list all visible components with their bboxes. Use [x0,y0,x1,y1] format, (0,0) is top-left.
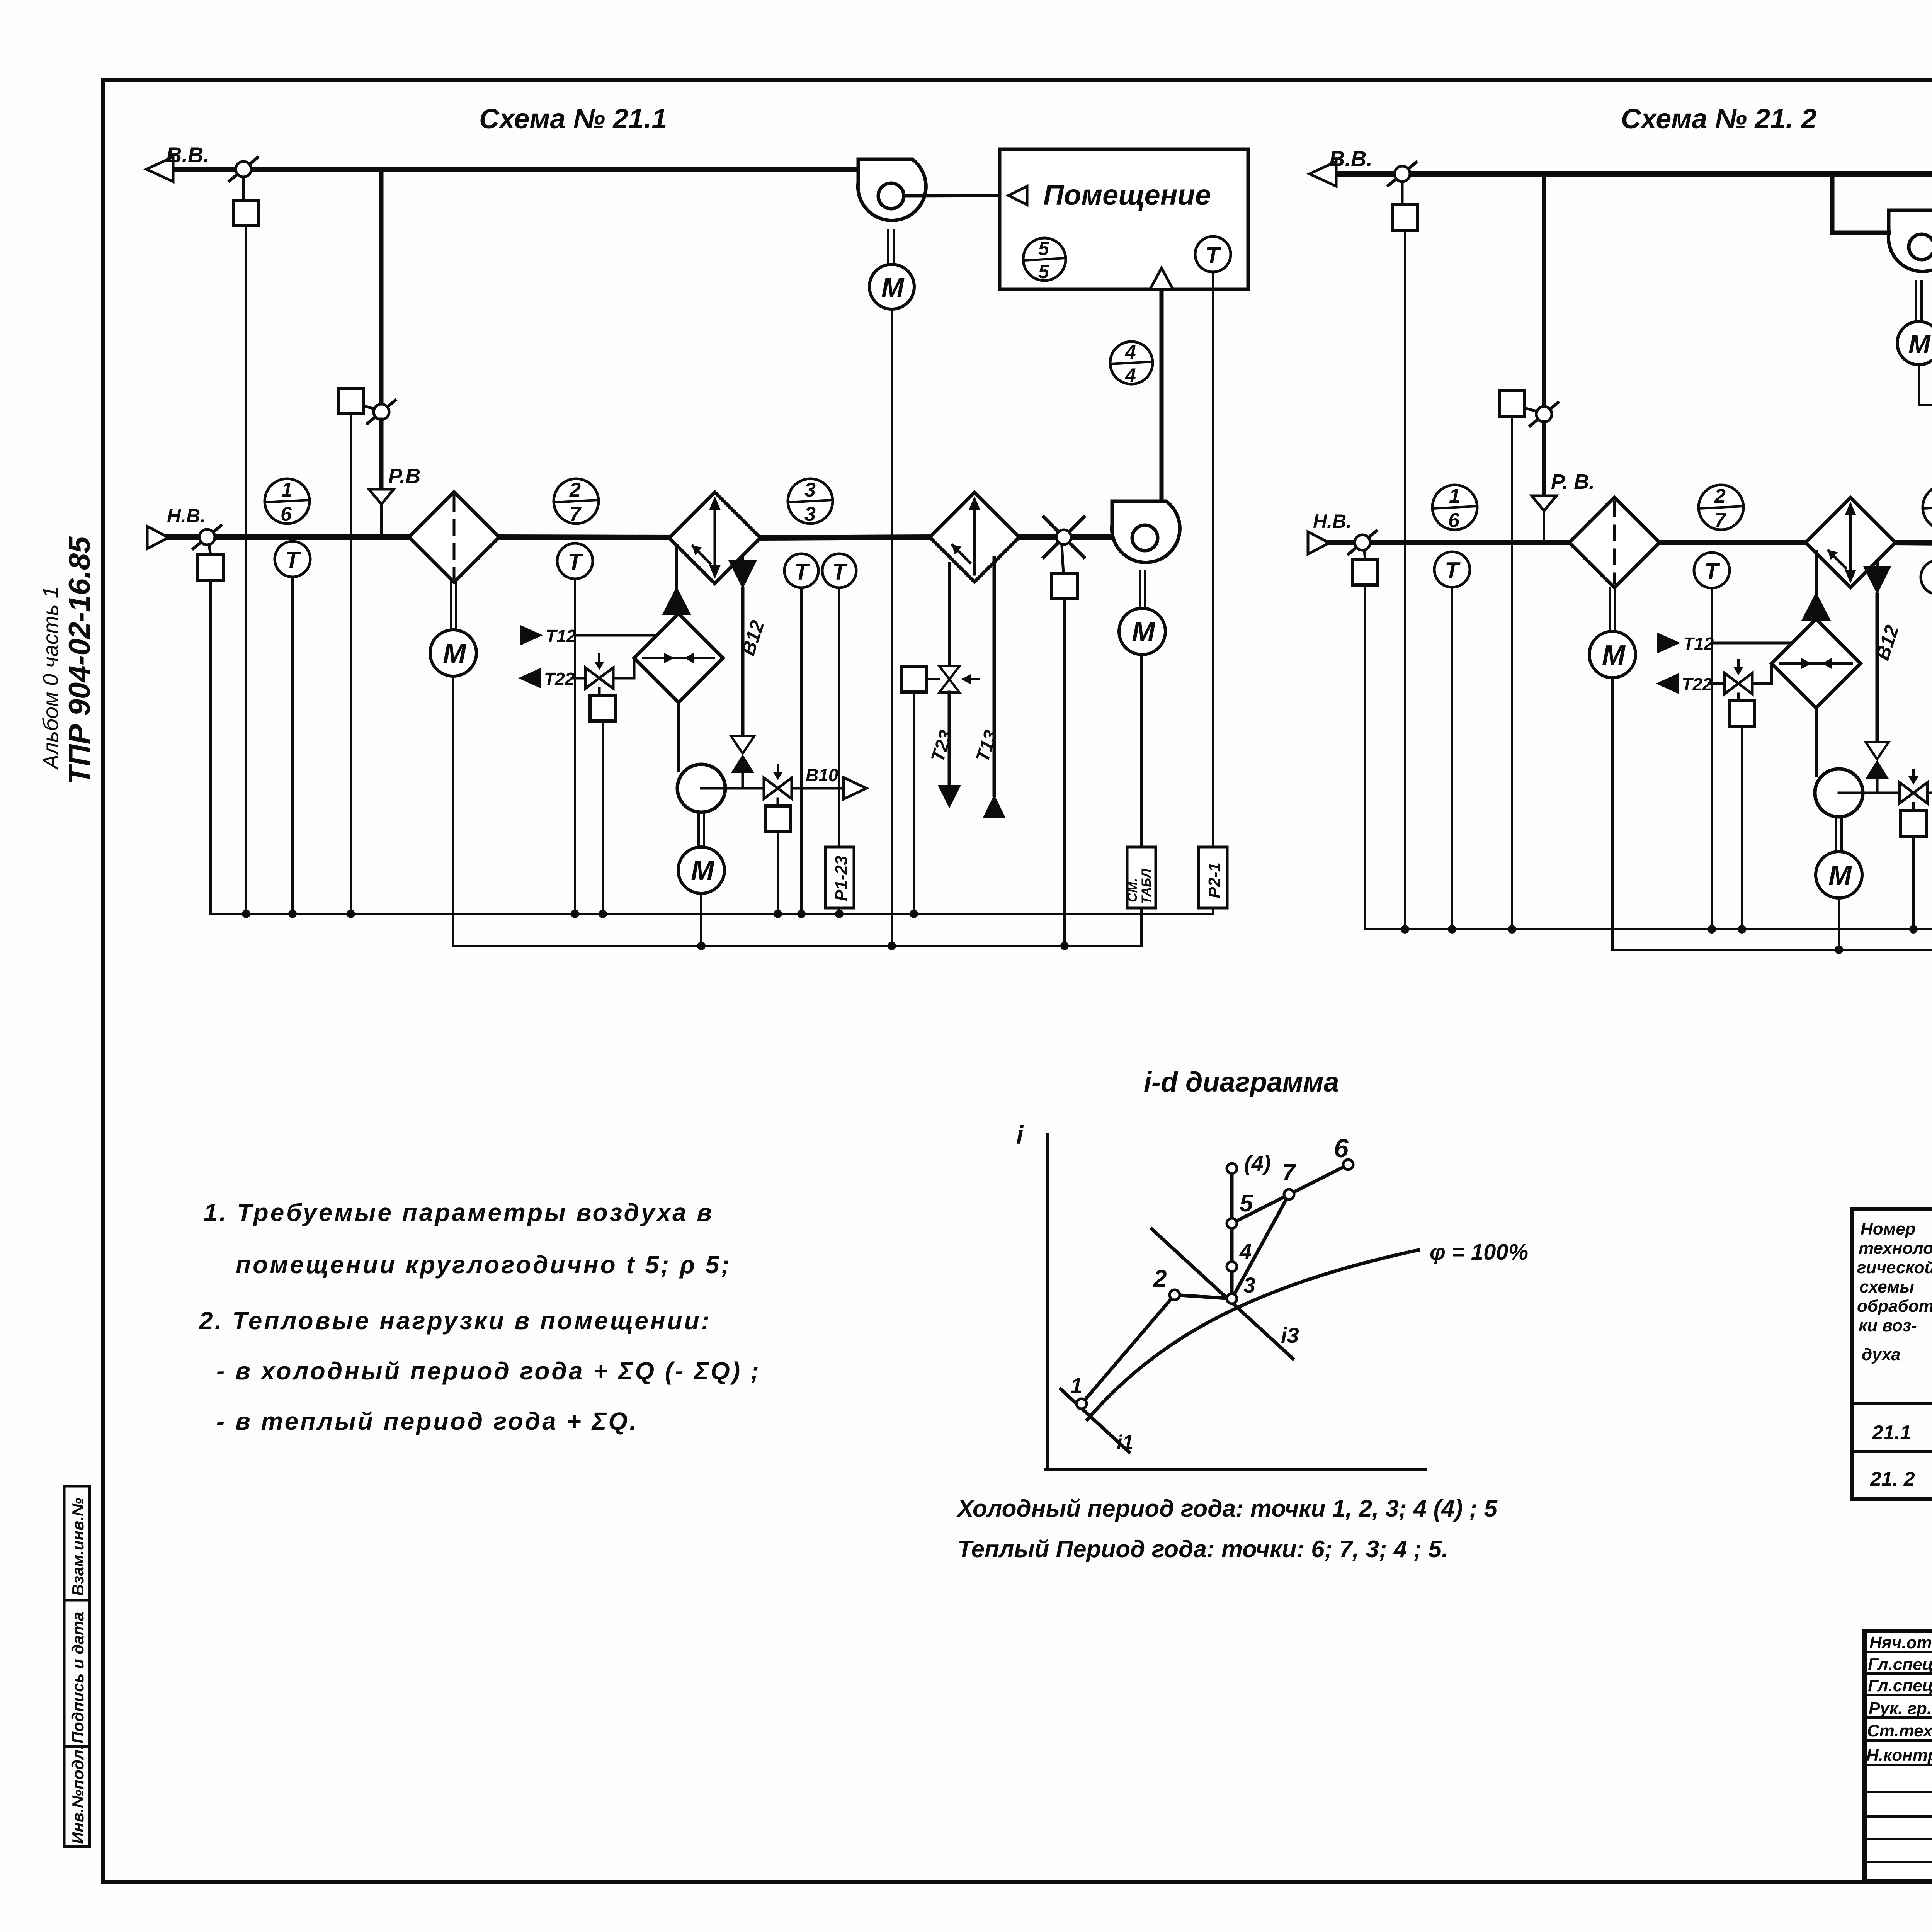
svg-text:Н.контр.: Н.контр. [1866,1746,1932,1765]
В12 return line from heater [728,560,757,589]
hot water supply arrow into heater [1815,552,1818,595]
svg-text:4: 4 [1125,341,1136,363]
svg-text:Р.В: Р.В [388,464,420,488]
svg-text:Гл.спец.: Гл.спец. [1868,1655,1932,1674]
svg-text:2. Тепловые нагрузки в по: 2. Тепловые нагрузки в помещении: [199,1307,711,1335]
heater U1 [669,492,760,583]
point 6 [1343,1160,1353,1170]
recirc damper D2 [367,400,395,423]
pump motor M2 [697,812,700,847]
svg-text:М: М [1132,617,1156,648]
svg-text:Р1-23: Р1-23 [832,856,851,901]
svg-text:Т12: Т12 [1683,634,1714,654]
wire damper D3 to bus [1364,585,1366,929]
В10 drain stub [792,787,844,790]
room supply opening [1150,268,1173,289]
svg-text:Подпись и дата: Подпись и дата [69,1612,87,1743]
svg-text:4: 4 [1239,1239,1252,1264]
stamp box Инв.№подл. [64,1747,90,1847]
wire T2 to bus [1711,588,1713,929]
svg-text:6: 6 [1334,1134,1349,1163]
label circle 5/5 [1023,238,1066,281]
svg-text:М: М [443,638,467,669]
Т22 tap [518,668,541,689]
fan motor M4 [887,230,889,264]
Т12 tap [520,625,543,646]
bus junctions [242,910,1069,950]
duct fan to room [904,196,1009,196]
hot water supply arrow into heater [675,546,678,590]
svg-text:обработ-: обработ- [1857,1297,1932,1316]
svg-text:7: 7 [1282,1159,1296,1186]
svg-text:Холодный период года: точки: Холодный период года: точки 1, 2, 3; 4 (… [956,1495,1498,1522]
point 7 [1284,1189,1294,1199]
wire V3 to bus [913,692,915,914]
svg-text:- в теплый период года: - в теплый период года + ΣQ. [216,1407,638,1435]
wire T4 to Р1-23 [838,588,840,847]
wire valve V2 to bus [777,832,779,914]
valve on В12 line [1866,742,1889,759]
svg-text:Т22: Т22 [544,669,575,689]
svg-text:Гл.спец.: Гл.спец. [1868,1676,1932,1695]
label circle 3/3 [788,479,833,524]
svg-text:духа: духа [1862,1345,1901,1364]
svg-text:i3: i3 [1281,1323,1299,1347]
svg-text:Т: Т [568,549,583,575]
svg-text:- в холодный период года: - в холодный период года + ΣQ (- ΣQ) ; [216,1357,761,1385]
wire M2 to bus [700,893,702,946]
Т23 drain arrow [948,692,951,785]
process line 3-7 [1232,1194,1289,1299]
svg-text:Т: Т [1206,242,1221,268]
svg-text:2: 2 [1153,1265,1167,1292]
supply duct up to room [1160,292,1164,501]
damper D1 on В.В. [1388,162,1416,185]
exhaust fan FN2 [858,159,926,221]
svg-text:Т12: Т12 [546,626,577,646]
svg-text:φ = 100%: φ = 100% [1430,1240,1528,1265]
svg-text:Номер: Номер [1861,1219,1916,1238]
svg-text:Альбом 0 часть 1: Альбом 0 часть 1 [38,586,63,770]
svg-text:ТПР 904-02-16.85: ТПР 904-02-16.85 [62,536,96,784]
wire M1 to bus [1611,678,1614,950]
svg-text:3: 3 [804,479,816,501]
wire damper D2 to bus [1511,416,1513,929]
fan motor M3 [1139,571,1141,608]
svg-text:техноло-: техноло- [1859,1239,1932,1258]
wire T3 to bus [800,588,803,914]
svg-text:Теплый Период года: точки:: Теплый Период года: точки: 6; 7, 3; 4 ; … [957,1536,1448,1563]
damper D1 on В.В. [230,158,257,181]
bus junctions [1401,925,1932,954]
pump motor M2 [1835,817,1837,852]
exhaust fan FN5 lower [1888,210,1932,272]
duct reheater to fan [1019,534,1131,540]
svg-text:1. Требуемые параметры воз: 1. Требуемые параметры воздуха в [204,1199,714,1226]
point 4 [1227,1262,1237,1272]
pump P1 [1815,769,1863,817]
label circle 2/7 [1699,485,1743,530]
filter motor M1 [1609,588,1611,631]
duct filter to heater [1660,540,1806,545]
svg-text:(4): (4) [1244,1151,1270,1175]
sensor T1 [1434,552,1470,587]
box СМ ТАБЛ [1127,847,1156,908]
pipe pump to valve V2 [701,787,764,790]
relay box Р1-23 [825,847,854,908]
pipe W1 to pump [1815,708,1818,776]
svg-text:2: 2 [569,479,581,501]
svg-text:7: 7 [1714,509,1726,532]
process line 5-6 [1232,1165,1348,1223]
svg-text:М: М [691,855,715,886]
valve V1 three-way [585,668,613,689]
svg-text:Р. В.: Р. В. [1551,470,1595,493]
duct heater to reheater [1895,543,1932,544]
control bus B [1612,949,1932,951]
svg-text:схемы: схемы [1859,1277,1914,1296]
svg-text:Т: Т [832,560,848,585]
В12 return line from heater [1863,566,1891,594]
svg-text:Рук. гр.: Рук. гр. [1869,1699,1932,1718]
В10 drain stub [1927,792,1932,794]
recirculation branch [379,172,384,403]
svg-text:ки воз-: ки воз- [1859,1316,1917,1335]
point 5 [1227,1218,1237,1228]
fan motor M6 [1915,281,1917,321]
svg-text:Ст.техн.: Ст.техн. [1867,1721,1932,1740]
heat exchanger W1 [1772,619,1861,708]
svg-text:гической: гической [1857,1258,1932,1277]
NOTES2 [199,1199,761,1435]
control bus B [453,945,1141,947]
filter F1 [409,492,499,582]
svg-text:1: 1 [281,479,293,501]
svg-text:В.В.: В.В. [1329,146,1372,171]
process line 2-3 [1175,1295,1232,1299]
wire valve V1 to bus [1741,726,1743,929]
svg-text:Инв.№подл.: Инв.№подл. [69,1745,87,1844]
stamp box Подпись и дата [64,1600,90,1747]
svg-text:Т: Т [285,547,301,573]
sensor T3 [784,554,818,588]
wire damper D3 to bus [209,580,212,914]
svg-text:В.В.: В.В. [166,143,209,167]
recirc damper D2 [1530,403,1558,426]
point 3 [1227,1294,1237,1304]
svg-text:Т: Т [1445,558,1461,583]
wire damper D1 to bus [1404,230,1406,929]
Т22 tap [1656,673,1679,694]
pump P1 [677,764,725,812]
svg-text:М: М [1828,860,1852,891]
wire M3 to СМ ТАБЛ [1140,655,1143,847]
isotherm i3 [1152,1229,1293,1359]
wire T1 to bus [291,577,294,914]
svg-text:3: 3 [804,503,816,526]
wire M1 to bus [452,676,454,946]
Т12 tap [1657,633,1680,653]
wire damper D2 to bus [350,414,352,914]
room sensor T5 [1195,236,1231,272]
svg-text:6: 6 [281,503,292,526]
Т13 pipe arrow [993,558,996,795]
svg-text:1: 1 [1449,485,1460,507]
wire X1 to bus [1063,599,1066,946]
control bus A [211,913,1213,915]
heat exchanger W1 [634,614,723,702]
svg-text:М: М [1602,640,1626,671]
wire M2 to bus [1838,898,1840,950]
sensor T3 [1921,560,1932,594]
duct filter to heater [499,537,670,537]
svg-text:помещении круглогодично t 5: помещении круглогодично t 5; ρ 5; [236,1251,731,1279]
svg-text:5: 5 [1038,261,1049,282]
svg-text:Т: Т [1704,558,1720,584]
supply fan FN1 [1112,501,1180,563]
exhaust duct В.В. [162,167,858,172]
valve V1 three-way [1725,673,1752,694]
sensor T2 [1694,553,1730,588]
svg-text:М: М [1908,330,1931,359]
svg-text:i-d диаграмма: i-d диаграмма [1144,1067,1339,1098]
wire valve V1 to bus [602,721,604,914]
wires M6 M7 join [1918,365,1920,405]
wire damper D1 to bus [245,226,247,914]
point (4) [1227,1163,1237,1173]
stamp box Взам.инв.№ [64,1486,90,1600]
relay box Р2-1 [1199,847,1227,908]
svg-text:21.1: 21.1 [1872,1422,1911,1444]
exhaust duct В.В. [1325,171,1932,177]
sensor T2 [557,543,593,579]
svg-text:Т22: Т22 [1682,674,1713,694]
svg-text:Н.В.: Н.В. [1313,510,1352,532]
svg-text:В10: В10 [806,765,838,785]
attachment table frame [1852,1209,1932,1499]
Р.В overflow valve [379,420,384,489]
shutoff damper X1 [1044,517,1084,557]
label circle 1/6 [265,479,310,524]
wire T5 to Р2-1 [1212,272,1214,847]
control bus A [1365,928,1932,930]
room box Помещение [1000,149,1248,289]
label circle 2/7 [554,479,599,524]
svg-text:i1: i1 [1117,1431,1133,1454]
valve V2 [1900,782,1927,803]
wire T2 to bus [574,579,576,914]
svg-text:4: 4 [1125,364,1136,386]
wire M4 to bus [891,309,893,946]
valve on В12 line [731,736,754,753]
svg-text:Н.В.: Н.В. [167,505,206,527]
svg-text:Взам.инв.№: Взам.инв.№ [69,1498,87,1596]
sensor T4 [822,554,856,588]
valve V2 [764,778,792,799]
reheater U2 [930,492,1019,582]
saturation curve phi 100% [1087,1250,1418,1420]
svg-text:1: 1 [1070,1373,1082,1398]
duct heater to reheater [760,537,930,538]
svg-text:7: 7 [570,503,582,526]
label circle 4/4 [1110,342,1153,384]
svg-text:М: М [881,272,905,303]
fan FN5 outlet duct [1832,231,1889,235]
svg-text:ТАБЛ: ТАБЛ [1139,868,1154,904]
svg-text:5: 5 [1038,238,1049,259]
svg-text:Схема № 21.1: Схема № 21.1 [479,104,667,134]
svg-text:21. 2: 21. 2 [1870,1468,1915,1490]
svg-text:i: i [1016,1121,1024,1149]
wire T1 to bus [1451,587,1453,929]
filter F1 [1569,497,1660,588]
diagram axes [1046,1134,1049,1469]
recirculation branch [1542,176,1546,405]
wire valve V2 to bus [1912,836,1915,929]
svg-text:Помещение: Помещение [1043,179,1211,211]
svg-text:Няч.отд: Няч.отд [1869,1633,1932,1652]
isotherm i1 [1061,1389,1129,1452]
Т23 valve V3 [948,563,951,672]
label circle 1/6 [1432,485,1477,530]
damper D3 on Н.В. [1349,531,1376,554]
Р.В overflow valve [1542,422,1546,496]
pipe W1 to pump [677,702,680,771]
title block frame [1865,1631,1932,1882]
sensor T1 [275,541,310,577]
svg-text:Т: Т [794,560,810,585]
svg-text:Схема № 21. 2: Схема № 21. 2 [1621,104,1816,134]
process line 1-2 [1082,1295,1175,1404]
svg-text:5: 5 [1240,1190,1253,1217]
label circle 3/3 [1923,485,1932,530]
damper D3 on Н.В. [193,526,221,549]
svg-text:3: 3 [1243,1273,1255,1297]
svg-text:6: 6 [1448,509,1460,532]
svg-text:2: 2 [1714,485,1726,507]
heater U1 [1806,498,1895,587]
process line 3-5-(4) [1230,1168,1234,1299]
point 2 [1170,1290,1180,1300]
pipe pump to valve V2 [1839,792,1900,794]
filter motor M1 [450,582,452,630]
svg-text:Р2-1: Р2-1 [1205,862,1224,898]
point 1 [1077,1399,1087,1409]
svg-text:СМ.: СМ. [1125,878,1140,902]
